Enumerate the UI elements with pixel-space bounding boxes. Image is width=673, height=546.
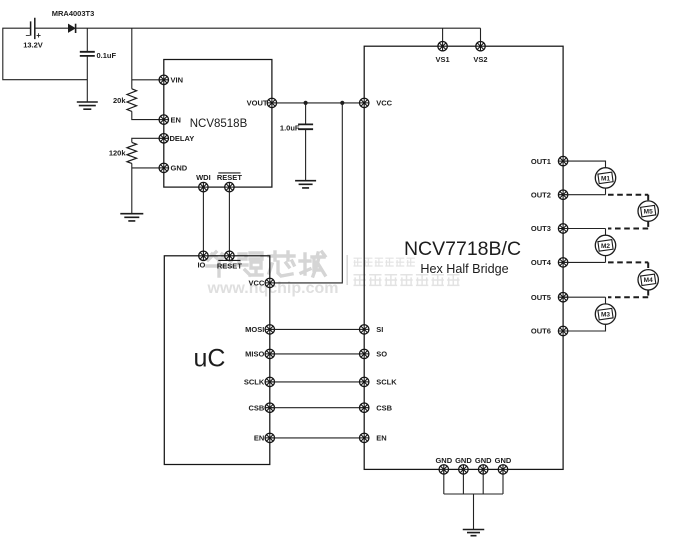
wire M5 dashed to OUT3 node bbox=[647, 221, 649, 228]
watermark separator bar bbox=[346, 255, 348, 285]
pin OUT4 bbox=[558, 258, 567, 267]
pin WDI bbox=[199, 182, 208, 191]
svg-text:OUT6: OUT6 bbox=[531, 327, 551, 336]
svg-text:OUT3: OUT3 bbox=[531, 224, 551, 233]
pin VIN bbox=[159, 75, 168, 84]
wire GND pins to bus bbox=[443, 469, 445, 494]
wire OUT3 node to M2 bbox=[605, 229, 607, 236]
svg-text:WDI: WDI bbox=[196, 173, 211, 182]
wire to capacitor C2 bbox=[305, 103, 307, 124]
wire M1 to OUT2 node bbox=[605, 188, 607, 195]
wire node to VIN pin bbox=[132, 79, 164, 81]
pin MOSI bbox=[265, 325, 274, 334]
svg-text:M4: M4 bbox=[644, 277, 653, 284]
wire M3 to OUT6 bbox=[563, 324, 605, 331]
svg-text:VCC: VCC bbox=[248, 279, 264, 288]
pin RESET (active low) bbox=[225, 182, 234, 191]
pin GND bbox=[159, 163, 168, 172]
svg-text:VS2: VS2 bbox=[473, 55, 487, 64]
svg-text:SCLK: SCLK bbox=[244, 378, 265, 387]
battery 13.2V bbox=[31, 18, 35, 39]
wire RESET to uC RESET bbox=[228, 187, 230, 256]
wire bus to ground bbox=[473, 494, 475, 529]
wire M2 to OUT4 node bbox=[605, 256, 607, 263]
svg-text:NCV8518B: NCV8518B bbox=[190, 118, 248, 130]
wire VS1 stub to rail bbox=[442, 28, 444, 46]
svg-text:VOUT: VOUT bbox=[247, 99, 268, 108]
wire OUT2 dashed to M5 bbox=[608, 194, 648, 196]
pin U2 EN bbox=[360, 433, 369, 442]
svg-text:OUT1: OUT1 bbox=[531, 157, 551, 166]
wire CSB to U2 bbox=[270, 407, 364, 409]
pin OUT6 bbox=[558, 326, 567, 335]
pin VOUT bbox=[267, 98, 276, 107]
pin U2 VCC bbox=[360, 98, 369, 107]
pin VS2 bbox=[476, 42, 485, 51]
motor M3 bbox=[595, 304, 615, 324]
wire OUT1 to M1 bbox=[563, 161, 605, 168]
wire OUT5 node to M3 bbox=[605, 297, 607, 304]
junction node at C2 bbox=[304, 101, 308, 105]
wire rail branch to VIN node bbox=[131, 28, 133, 89]
svg-text:0.1uF: 0.1uF bbox=[97, 51, 117, 60]
wire DELAY pin to R2 bbox=[132, 138, 164, 142]
svg-text:GND: GND bbox=[455, 456, 472, 465]
wire C2 to ground bbox=[305, 130, 307, 181]
resistor R1 20k bbox=[127, 89, 137, 112]
svg-text:VS1: VS1 bbox=[436, 55, 450, 64]
ground under C2 bbox=[295, 181, 316, 188]
ground under R2 bbox=[120, 214, 143, 221]
wire VOUT to VCC of U2 bbox=[272, 102, 364, 104]
pin U2 CSB bbox=[360, 403, 369, 412]
wire OUT3 solid segment bbox=[563, 228, 605, 230]
svg-text:13.2V: 13.2V bbox=[23, 41, 43, 50]
regulator U1 NCV8518B body bbox=[164, 60, 272, 188]
pin EN bbox=[159, 115, 168, 124]
svg-text:20k: 20k bbox=[113, 96, 126, 105]
pin SI bbox=[360, 325, 369, 334]
svg-text:GND: GND bbox=[495, 456, 512, 465]
svg-text:M1: M1 bbox=[601, 175, 610, 182]
svg-text:M3: M3 bbox=[601, 312, 610, 319]
pin OUT3 bbox=[558, 224, 567, 233]
svg-text:RESET: RESET bbox=[217, 261, 242, 270]
wire MOSI to U2 bbox=[270, 328, 364, 330]
pin DELAY bbox=[159, 134, 168, 143]
svg-text:Hex Half Bridge: Hex Half Bridge bbox=[420, 262, 508, 276]
pin uC CSB bbox=[265, 403, 274, 412]
wire rail corner to VS2 bbox=[480, 28, 482, 46]
svg-text:MRA4003T3: MRA4003T3 bbox=[52, 9, 95, 18]
svg-text:EN: EN bbox=[171, 115, 181, 124]
svg-text:1.0uF: 1.0uF bbox=[280, 123, 300, 132]
pin GND1 bbox=[439, 465, 448, 474]
svg-text:VCC: VCC bbox=[376, 99, 392, 108]
wire R1 to EN pin bbox=[132, 111, 164, 119]
pin OUT1 bbox=[558, 156, 567, 165]
svg-text:+: + bbox=[36, 31, 41, 40]
svg-text:GND: GND bbox=[475, 456, 492, 465]
svg-text:VIN: VIN bbox=[171, 76, 184, 85]
svg-text:–: – bbox=[26, 31, 31, 40]
wire M4 dashed to OUT5 node bbox=[647, 290, 649, 297]
wire SCLK to U2 bbox=[270, 381, 364, 383]
resistor R2 120k bbox=[127, 142, 137, 163]
watermark text 华强集团旗下 (approximated) bbox=[354, 258, 362, 266]
svg-text:EN: EN bbox=[254, 434, 264, 443]
svg-text:M2: M2 bbox=[601, 243, 610, 250]
microcontroller uC body bbox=[164, 256, 269, 465]
wire battery negative loop bbox=[3, 28, 88, 79]
svg-text:CSB: CSB bbox=[376, 403, 392, 412]
svg-text:GND: GND bbox=[171, 164, 188, 173]
svg-text:OUT5: OUT5 bbox=[531, 293, 551, 302]
svg-text:DELAY: DELAY bbox=[170, 134, 195, 143]
wire EN to U2 bbox=[270, 437, 364, 439]
wire OUT2 solid segment bbox=[563, 194, 605, 196]
wire power rail bbox=[76, 27, 481, 29]
ground main bbox=[463, 530, 485, 536]
pin VS1 bbox=[438, 42, 447, 51]
wire WDI to uC IO bbox=[202, 187, 204, 256]
pin uC EN bbox=[265, 433, 274, 442]
wire OUT5 solid segment bbox=[563, 296, 605, 298]
wire MISO to U2 bbox=[270, 353, 364, 355]
watermark text 元器件在线商城 (approximated) bbox=[354, 275, 366, 286]
pin uC RESET (active low) bbox=[225, 251, 234, 260]
wire VOUT down to uC VCC bbox=[270, 103, 343, 283]
svg-text:uC: uC bbox=[194, 345, 226, 373]
capacitor C2 1.0uF bbox=[298, 124, 313, 129]
svg-text:SI: SI bbox=[376, 325, 383, 334]
svg-text:SO: SO bbox=[376, 350, 387, 359]
svg-text:NCV7718B/C: NCV7718B/C bbox=[404, 238, 521, 260]
motor M2 bbox=[595, 235, 615, 255]
wire battery positive to diode bbox=[35, 27, 69, 29]
ground under C1 bbox=[77, 102, 98, 109]
pin SO bbox=[360, 349, 369, 358]
capacitor C1 0.1uF bbox=[80, 52, 95, 56]
wire OUT4 solid segment bbox=[563, 261, 605, 263]
wire C1 to ground bbox=[86, 56, 88, 101]
pin GND3 bbox=[479, 465, 488, 474]
svg-text:OUT2: OUT2 bbox=[531, 190, 551, 199]
pin uC SCLK bbox=[265, 377, 274, 386]
svg-text:IO: IO bbox=[197, 260, 205, 269]
wire rail to capacitor C1 bbox=[86, 28, 88, 51]
svg-text:OUT4: OUT4 bbox=[531, 258, 552, 267]
svg-text:EN: EN bbox=[376, 434, 386, 443]
pin uC VCC bbox=[265, 278, 274, 287]
svg-text:GND: GND bbox=[435, 456, 452, 465]
svg-text:SCLK: SCLK bbox=[376, 378, 397, 387]
watermark big text 华强芯城 (approximated strokes) bbox=[207, 252, 231, 276]
pin IO bbox=[199, 251, 208, 260]
svg-text:M5: M5 bbox=[644, 209, 653, 216]
pin GND4 bbox=[498, 465, 507, 474]
svg-text:RESET: RESET bbox=[217, 173, 242, 182]
svg-text:CSB: CSB bbox=[248, 403, 264, 412]
svg-text:MOSI: MOSI bbox=[245, 325, 264, 334]
motor M4 bbox=[638, 270, 658, 290]
svg-text:120k: 120k bbox=[109, 149, 127, 158]
pin U2 SCLK bbox=[360, 377, 369, 386]
wire ground bus bbox=[444, 493, 503, 495]
pin OUT2 bbox=[558, 190, 567, 199]
pin OUT5 bbox=[558, 293, 567, 302]
junction node at uC VCC drop bbox=[340, 101, 344, 105]
wire OUT4 dashed to M4 bbox=[608, 261, 648, 263]
pin GND2 bbox=[459, 465, 468, 474]
pin MISO bbox=[265, 349, 274, 358]
driver U2 NCV7718B/C body bbox=[364, 46, 563, 469]
motor M1 bbox=[595, 168, 615, 188]
svg-text:MISO: MISO bbox=[245, 350, 264, 359]
diode MRA4003T3 bbox=[68, 24, 75, 32]
motor M5 bbox=[638, 201, 658, 221]
wire R2 to GND pin and ground bbox=[132, 163, 164, 213]
